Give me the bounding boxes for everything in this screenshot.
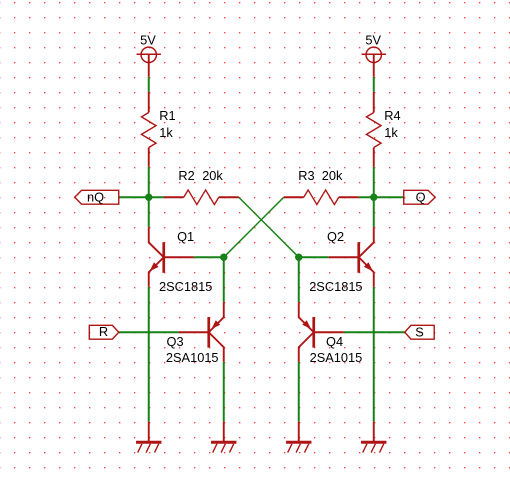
resistor R4 bbox=[366, 92, 381, 167]
transistor Q3 2SA1015 PNP bbox=[179, 302, 224, 362]
node flag R bbox=[89, 325, 118, 339]
supply +5V right symbol bbox=[362, 47, 386, 77]
svg-text:20k: 20k bbox=[202, 168, 223, 183]
wire node Q down to Q2 collector bbox=[373, 197, 375, 227]
svg-text:nQ: nQ bbox=[87, 189, 104, 204]
svg-text:Q2: Q2 bbox=[327, 229, 344, 244]
svg-text:Q: Q bbox=[416, 189, 426, 204]
junction node Q bbox=[370, 194, 377, 201]
wire node nQ down to Q1 collector bbox=[148, 197, 150, 227]
wire Q1 emitter to ground 1 bbox=[148, 287, 150, 422]
supply +5V left symbol bbox=[137, 47, 161, 77]
ground 4 bbox=[361, 422, 386, 453]
node flag Q bbox=[404, 190, 436, 204]
svg-text:Q1: Q1 bbox=[177, 229, 194, 244]
wire diagonal R3 left pin to Q1 base junction bbox=[224, 197, 284, 257]
wire R3 right pin to node Q bbox=[359, 196, 374, 198]
resistor R2 bbox=[164, 190, 239, 205]
svg-text:1k: 1k bbox=[159, 125, 173, 140]
wire Q1 base pin to junction bbox=[194, 256, 224, 258]
svg-text:R1: R1 bbox=[159, 108, 175, 123]
svg-text:5V: 5V bbox=[365, 32, 381, 47]
svg-text:5V: 5V bbox=[140, 32, 156, 47]
wire Q3 collector to ground 2 bbox=[223, 362, 225, 422]
svg-text:R: R bbox=[99, 324, 108, 339]
ground 2 bbox=[211, 422, 236, 453]
wire node Q to Q flag bbox=[374, 196, 404, 198]
transistor Q2 2SC1815 NPN bbox=[329, 227, 374, 287]
resistor R1 bbox=[141, 92, 156, 167]
node flag nQ bbox=[75, 190, 119, 204]
junction node nQ bbox=[145, 194, 152, 201]
ground 3 bbox=[286, 422, 311, 453]
svg-text:2SA1015: 2SA1015 bbox=[166, 350, 219, 365]
svg-text:R3: R3 bbox=[298, 168, 314, 183]
transistor Q1 2SC1815 NPN bbox=[149, 227, 194, 287]
arrow emitter Q1 bbox=[150, 262, 159, 271]
wire 5V left supply to R1 bbox=[148, 77, 150, 92]
junction Q1 base node bbox=[220, 254, 227, 261]
svg-text:R4: R4 bbox=[384, 108, 400, 123]
node flag S bbox=[405, 325, 434, 339]
svg-text:2SC1815: 2SC1815 bbox=[309, 279, 362, 294]
wire Q1 base junction down to Q3 emitter bbox=[223, 257, 225, 302]
wire Q4 base pin to S flag bbox=[344, 331, 405, 333]
wire R4 bottom to node Q bbox=[373, 167, 375, 198]
ground 1 bbox=[136, 422, 161, 453]
wire R flag to Q3 base pin bbox=[119, 331, 179, 333]
wire Q2 emitter to ground 4 bbox=[373, 287, 375, 422]
svg-text:20k: 20k bbox=[322, 168, 343, 183]
arrow emitter Q3 bbox=[212, 320, 221, 329]
wire Q2 base junction down to Q4 emitter bbox=[298, 257, 300, 302]
wire R1 bottom to node nQ bbox=[148, 167, 150, 198]
wire nQ flag to node nQ bbox=[119, 196, 149, 198]
svg-text:S: S bbox=[415, 324, 424, 339]
svg-text:1k: 1k bbox=[384, 125, 398, 140]
transistor Q4 2SA1015 PNP bbox=[299, 302, 344, 362]
wire Q2 base junction to Q2 base pin bbox=[299, 256, 329, 258]
arrow emitter Q4 bbox=[302, 320, 311, 329]
wire 5V right supply to R4 bbox=[373, 77, 375, 92]
junction Q2 base node bbox=[295, 254, 302, 261]
svg-text:R2: R2 bbox=[178, 168, 194, 183]
wire node nQ to R2 left pin bbox=[149, 196, 164, 198]
svg-text:2SA1015: 2SA1015 bbox=[310, 350, 363, 365]
wire Q4 collector to ground 3 bbox=[298, 362, 300, 422]
resistor R3 bbox=[284, 190, 359, 205]
wire diagonal R2 right pin to Q2 base junction bbox=[239, 197, 299, 257]
svg-text:Q3: Q3 bbox=[167, 334, 184, 349]
svg-text:Q4: Q4 bbox=[326, 334, 343, 349]
svg-text:2SC1815: 2SC1815 bbox=[159, 279, 212, 294]
arrow emitter Q2 bbox=[364, 262, 373, 271]
